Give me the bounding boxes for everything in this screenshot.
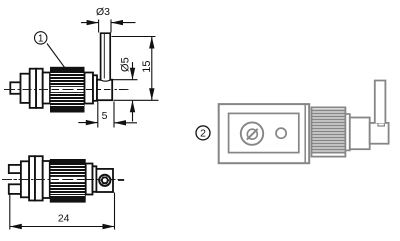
cable up	[101, 33, 111, 80]
inner rect	[229, 113, 299, 152]
centerline visible over left parts	[6, 89, 49, 91]
dim Ø5 top arrow	[132, 62, 134, 79]
neck	[43, 73, 50, 104]
dim 5 ext lines	[97, 102, 99, 128]
ring'	[93, 166, 97, 192]
svg-text:Ø3: Ø3	[96, 6, 110, 18]
flange B1	[30, 69, 36, 108]
centerline dash right of block	[118, 179, 124, 181]
dim Ø3 lines + arrows	[81, 22, 99, 24]
dim Ø5 top ext tick	[112, 79, 137, 81]
cable inner line	[103, 34, 105, 79]
screw outer circle	[241, 122, 263, 144]
centerline top view	[4, 89, 130, 91]
cable 2	[375, 81, 386, 124]
body outer rect	[219, 104, 310, 163]
cable step	[378, 123, 384, 126]
screw circle	[99, 175, 110, 186]
end piece	[97, 80, 112, 101]
svg-text:24: 24	[58, 213, 70, 225]
tip	[10, 82, 20, 94]
dim 15 top ext	[112, 36, 156, 38]
gland	[350, 118, 370, 150]
centerline bottom view	[2, 179, 124, 181]
collar'	[86, 164, 93, 195]
tab upper	[9, 165, 21, 173]
screw inner circle	[247, 129, 257, 139]
body right double edge	[304, 104, 306, 163]
screw center hole	[103, 178, 107, 182]
svg-text:5: 5	[102, 110, 108, 122]
centerline over collar/end	[86, 89, 124, 91]
knurled barrel'	[50, 159, 86, 203]
dim 15 line + arrows	[151, 37, 153, 101]
dim Ø5 bottom arrow	[132, 101, 134, 122]
dim Ø5/15 bottom ext line	[114, 99, 159, 101]
centerline over left parts	[3, 179, 49, 181]
dim 24 ext lines	[9, 195, 11, 230]
tab lower	[9, 184, 21, 194]
elbow	[370, 123, 389, 144]
svg-text:1: 1	[38, 34, 44, 45]
svg-text:2: 2	[200, 128, 206, 140]
dim 5 lines + arrows	[78, 122, 98, 124]
flange B1'	[29, 156, 35, 200]
callout circle 2	[196, 126, 210, 140]
dim Ø3 extension lines	[98, 20, 100, 33]
collar 2	[345, 114, 349, 150]
flange B2'	[35, 156, 43, 200]
svg-text:Ø5: Ø5	[120, 57, 132, 72]
flange B2	[36, 69, 43, 108]
screw slot	[247, 129, 258, 140]
callout circle 1	[35, 32, 47, 44]
small hole	[276, 128, 286, 138]
neck'	[43, 161, 50, 198]
screw hexagon	[101, 177, 109, 184]
knurled barrel	[50, 67, 85, 113]
dim 24 line + arrows	[10, 226, 115, 228]
ribbed barrel 2	[312, 107, 346, 156]
section A	[21, 74, 30, 103]
ring	[93, 75, 97, 101]
svg-text:15: 15	[141, 60, 153, 72]
section A'	[21, 161, 29, 197]
collar	[85, 73, 94, 104]
screw block	[96, 169, 113, 192]
leader line 1	[47, 44, 65, 68]
centerline over collar/block	[86, 179, 116, 181]
